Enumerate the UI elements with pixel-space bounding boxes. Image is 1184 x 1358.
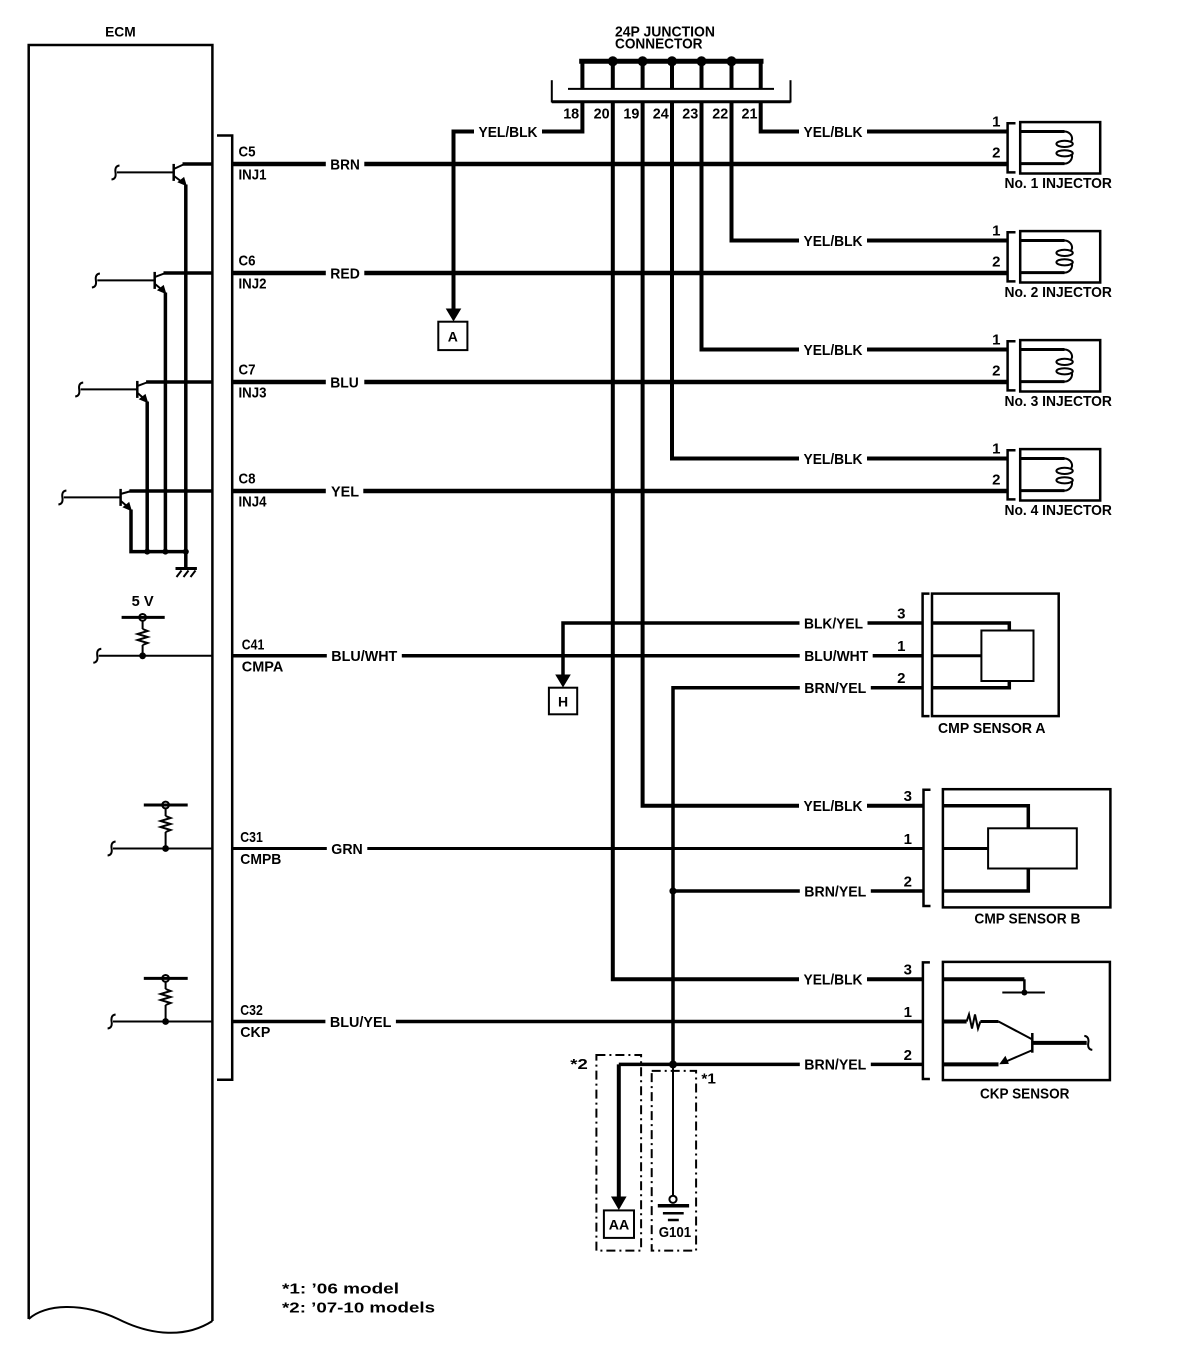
svg-text:2: 2 <box>992 254 1000 271</box>
svg-text:No. 4 INJECTOR: No. 4 INJECTOR <box>1004 502 1112 519</box>
arrowhead into connector AA <box>611 1197 627 1211</box>
resistor R3 (C32 pull-up) <box>161 982 171 1022</box>
CKP emitter diagonal with arrowhead <box>1006 1051 1032 1062</box>
Q1 base wire <box>117 171 174 173</box>
wire to ground G101 <box>672 1064 674 1195</box>
junction dot C41 <box>139 652 146 659</box>
svg-text:INJ3: INJ3 <box>239 385 267 402</box>
junction bus dots <box>608 56 618 66</box>
Q2 collector wire <box>164 271 213 275</box>
connector AA box <box>604 1210 634 1238</box>
transistor Q1 (INJ1 driver) <box>112 164 213 552</box>
Q3 emitter arrowhead <box>139 394 149 403</box>
svg-text:BRN/YEL: BRN/YEL <box>804 1057 866 1074</box>
transistor Q3 (INJ3 driver) <box>75 381 212 552</box>
No.4 injector connector bracket <box>1008 450 1016 499</box>
svg-text:21: 21 <box>742 106 758 123</box>
Q3 base bar <box>136 381 139 398</box>
svg-text:BLU/WHT: BLU/WHT <box>331 648 397 665</box>
svg-text:YEL: YEL <box>331 483 359 500</box>
svg-text:5 V: 5 V <box>132 593 154 610</box>
svg-text:BRN: BRN <box>330 156 360 173</box>
Q2 collector diagonal <box>155 273 166 277</box>
Q3 emitter diagonal <box>138 393 146 400</box>
svg-text:BLU/WHT: BLU/WHT <box>804 648 868 665</box>
No.4 injector coil <box>1020 459 1073 491</box>
svg-text:CMPA: CMPA <box>242 659 284 676</box>
Q1 base continuation hook <box>112 166 120 180</box>
No.3 injector coil <box>1020 350 1073 382</box>
Q2 emitter arrowhead <box>157 285 167 294</box>
svg-text:22: 22 <box>712 106 728 123</box>
svg-text:YEL/BLK: YEL/BLK <box>804 233 863 250</box>
svg-text:BLU/YEL: BLU/YEL <box>330 1014 392 1031</box>
supply node (C32 pull-up) <box>144 975 188 982</box>
svg-text:2: 2 <box>904 1047 912 1064</box>
svg-text:2: 2 <box>904 873 912 890</box>
svg-text:2: 2 <box>992 472 1000 489</box>
svg-text:C7: C7 <box>239 362 256 379</box>
svg-text:A: A <box>448 329 458 345</box>
wire BRN/YEL CMP sensor A pin2 / ground bus <box>673 688 923 1065</box>
wire to connector AA <box>617 1064 621 1198</box>
svg-text:*1: ’06 model: *1: ’06 model <box>282 1281 399 1298</box>
CKP transistor base diagonal <box>999 1022 1032 1040</box>
Q2 emitter wire <box>164 293 168 552</box>
arrowhead into connector H <box>555 675 571 688</box>
svg-text:2: 2 <box>992 363 1000 380</box>
svg-text:1: 1 <box>897 638 905 655</box>
svg-text:YEL/BLK: YEL/BLK <box>804 342 863 359</box>
CKP sensor box <box>943 962 1110 1080</box>
CKP pin2 wire <box>943 1062 999 1066</box>
wire pin23 YEL/BLK to No.3 injector <box>702 102 1008 350</box>
Q3 base continuation hook <box>75 383 83 397</box>
CMP sensor A box <box>932 594 1059 717</box>
wire BRN/YEL CKP sensor pin2 with stub to AA <box>619 1063 923 1067</box>
svg-text:No. 1 INJECTOR: No. 1 INJECTOR <box>1004 175 1112 192</box>
svg-text:2: 2 <box>897 670 905 687</box>
svg-text:20: 20 <box>594 106 610 123</box>
svg-text:23: 23 <box>682 106 698 123</box>
transistor Q4 (INJ4 driver) <box>58 489 212 552</box>
Q4 base wire <box>64 496 121 498</box>
junction dot BRN/YEL at CKP <box>669 1060 677 1068</box>
CKP sensor internals <box>943 979 1092 1064</box>
svg-text:YEL/BLK: YEL/BLK <box>804 451 863 468</box>
CMP sensor B internals <box>943 806 1077 891</box>
No.1 injector coil <box>1020 132 1073 164</box>
CKP plate line <box>1002 992 1045 994</box>
svg-text:YEL/BLK: YEL/BLK <box>804 124 863 141</box>
CKP supply line pin3 <box>943 977 1025 981</box>
Q4 collector wire <box>129 489 212 493</box>
wire pin18 YEL/BLK to connector A <box>454 102 583 310</box>
wire RED row C6 to No.2 injector <box>232 271 1007 276</box>
svg-text:24: 24 <box>653 106 670 123</box>
Q2 base wire <box>97 279 154 281</box>
svg-text:BRN/YEL: BRN/YEL <box>804 883 866 900</box>
Q1 collector wire <box>183 162 213 166</box>
Q1 collector diagonal <box>174 164 185 169</box>
CMP sensor A connector bracket <box>923 594 930 717</box>
svg-text:No. 2 INJECTOR: No. 2 INJECTOR <box>1004 284 1112 301</box>
C32 internal wire with hook <box>108 1015 116 1029</box>
No.3 injector connector bracket <box>1008 341 1016 390</box>
svg-text:YEL/BLK: YEL/BLK <box>479 124 538 141</box>
svg-text:C41: C41 <box>242 636 264 653</box>
svg-text:1: 1 <box>992 441 1000 458</box>
wire pin24 YEL/BLK to No.4 injector <box>672 102 1008 459</box>
wire BLU row C7 to No.3 injector <box>232 380 1007 385</box>
CKP sensor connector bracket <box>923 962 930 1079</box>
junction dot C32 <box>162 1018 169 1025</box>
Q1 emitter arrowhead <box>177 177 187 186</box>
C31 internal wire with hook <box>108 842 116 856</box>
svg-text:AA: AA <box>609 1217 630 1233</box>
svg-text:1: 1 <box>904 1004 912 1021</box>
Q1 emitter wire <box>184 185 188 552</box>
ECM wavy bottom edge <box>29 1307 213 1333</box>
supply node (C31 pull-up) <box>144 802 188 809</box>
CKP collector wire with hook <box>1032 1041 1086 1045</box>
svg-text:*1: *1 <box>701 1071 716 1088</box>
svg-text:RED: RED <box>330 265 360 282</box>
wire BLU/YEL row C32 to CKP sensor <box>232 1020 923 1024</box>
svg-text:CMPB: CMPB <box>240 851 281 868</box>
junction pin stubs above housing <box>582 61 760 88</box>
svg-text:1: 1 <box>904 831 912 848</box>
svg-text:No. 3 INJECTOR: No. 3 INJECTOR <box>1004 393 1112 410</box>
Q3 collector diagonal <box>138 382 149 386</box>
wire pin19 YEL/BLK to CMP sensor B <box>643 102 924 806</box>
svg-text:1: 1 <box>992 114 1000 131</box>
svg-text:YEL/BLK: YEL/BLK <box>804 798 863 815</box>
svg-text:INJ1: INJ1 <box>239 167 267 184</box>
wire label gaps <box>325 124 872 1072</box>
svg-text:3: 3 <box>904 962 912 979</box>
wire GRN row C31 to CMP sensor B <box>232 847 923 850</box>
Q4 base continuation hook <box>58 491 66 505</box>
svg-text:*2: *2 <box>570 1056 588 1073</box>
No.2 injector coil <box>1020 241 1073 273</box>
connector H box <box>549 688 577 715</box>
Q1 emitter diagonal <box>174 176 184 183</box>
svg-text:H: H <box>558 694 568 710</box>
dashed box *1 ('06 model) <box>652 1071 696 1251</box>
svg-text:*2: ’07-10 models: *2: ’07-10 models <box>282 1300 435 1317</box>
svg-text:G101: G101 <box>659 1224 692 1241</box>
wire BLU/WHT row C41 to CMP sensor A <box>232 654 922 658</box>
svg-text:CMP SENSOR A: CMP SENSOR A <box>938 720 1046 737</box>
CKP pin1 wire <box>943 1020 967 1024</box>
svg-text:BLK/YEL: BLK/YEL <box>804 615 863 632</box>
emitter common bus junction dots <box>144 549 150 555</box>
svg-text:C6: C6 <box>239 253 256 270</box>
svg-text:YEL/BLK: YEL/BLK <box>804 972 863 989</box>
wire pin21 YEL/BLK to No.1 injector <box>761 102 1008 132</box>
Q3 base wire <box>81 388 138 390</box>
svg-text:INJ4: INJ4 <box>239 494 268 511</box>
Q1 base bar <box>172 164 175 181</box>
transistor Q2 (INJ2 driver) <box>92 272 212 552</box>
svg-text:BLU: BLU <box>330 374 359 391</box>
svg-text:C31: C31 <box>240 829 262 846</box>
svg-text:ECM: ECM <box>105 23 136 39</box>
No.2 injector connector bracket <box>1008 232 1016 281</box>
wire BRN/YEL CMP sensor B pin2 <box>673 889 924 893</box>
svg-text:18: 18 <box>563 106 579 123</box>
resistor R2 (C31 pull-up) <box>161 808 171 848</box>
svg-text:CONNECTOR: CONNECTOR <box>615 35 703 52</box>
svg-text:C5: C5 <box>239 144 256 161</box>
No.2 injector box <box>1020 231 1100 282</box>
Q3 emitter wire <box>145 402 149 552</box>
Q4 collector diagonal <box>121 491 131 494</box>
svg-text:INJ2: INJ2 <box>239 276 267 293</box>
No.3 injector box <box>1020 340 1100 391</box>
svg-text:GRN: GRN <box>331 841 363 858</box>
CKP internal resistor zigzag <box>967 1014 981 1028</box>
ECM internal ground <box>176 552 197 577</box>
ground G101 symbol <box>658 1196 689 1220</box>
5V supply node (C41 pull-up) <box>122 614 165 621</box>
No.1 injector box <box>1020 122 1100 173</box>
junction dot BRN/YEL at CMP B <box>669 887 676 894</box>
svg-text:C8: C8 <box>239 471 256 488</box>
svg-text:CKP SENSOR: CKP SENSOR <box>980 1085 1070 1102</box>
ECM connector strip <box>217 136 232 1080</box>
C41 internal wire with hook <box>93 649 101 663</box>
connector A box <box>438 322 467 350</box>
svg-text:3: 3 <box>897 605 905 622</box>
svg-text:CMP SENSOR B: CMP SENSOR B <box>974 910 1080 927</box>
wire YEL row C8 to No.4 injector <box>232 489 1007 494</box>
resistor R1 (C41 pull-up) <box>138 621 148 656</box>
junction dot C31 <box>162 845 169 852</box>
24P junction connector bus bar <box>579 59 763 64</box>
arrowhead into connector A <box>446 309 462 322</box>
Q4 emitter diagonal <box>121 501 130 508</box>
svg-text:1: 1 <box>992 332 1000 349</box>
CMP sensor B box <box>943 789 1111 907</box>
wire pin20 YEL/BLK to CKP sensor <box>613 102 923 980</box>
wire BRN row C5 to No.1 injector <box>232 162 1007 167</box>
ECM box outline <box>29 45 213 1321</box>
svg-text:1: 1 <box>992 223 1000 240</box>
wire pin22 YEL/BLK to No.2 injector <box>732 102 1008 241</box>
svg-text:CKP: CKP <box>240 1024 270 1041</box>
No.1 injector connector bracket <box>1008 123 1016 172</box>
svg-text:2: 2 <box>992 145 1000 162</box>
svg-text:C32: C32 <box>240 1002 262 1019</box>
CMP sensor A internals <box>932 623 1034 688</box>
Q4 base bar <box>119 489 122 506</box>
Q3 collector wire <box>146 380 212 384</box>
Q2 base continuation hook <box>92 274 100 288</box>
CKP transistor bar <box>1031 1033 1034 1053</box>
wire BLK/YEL CMP sensor A pin3 to connector H <box>563 623 923 676</box>
CMP sensor B connector bracket <box>924 790 931 906</box>
No.4 injector box <box>1020 449 1100 500</box>
dashed box *2 ('07-10 models) <box>596 1055 641 1251</box>
svg-text:19: 19 <box>623 106 639 123</box>
Q2 emitter diagonal <box>155 284 164 291</box>
svg-text:3: 3 <box>904 788 912 805</box>
Q4 emitter arrowhead <box>122 502 132 511</box>
svg-text:BRN/YEL: BRN/YEL <box>804 680 866 697</box>
Q2 base bar <box>153 272 156 289</box>
Q4 emitter wire <box>131 510 186 552</box>
junction connector housing <box>552 80 791 102</box>
